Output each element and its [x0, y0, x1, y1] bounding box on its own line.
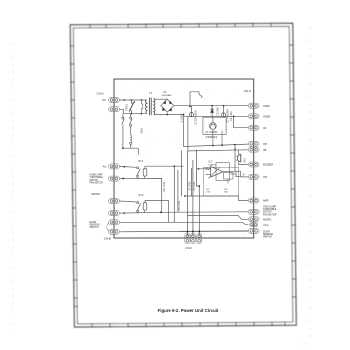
wire fuse branch: [141, 100, 142, 114]
varistor VRS1: [130, 100, 134, 114]
wire aux stub: [227, 179, 229, 184]
junction dots rails C/D: [221, 144, 223, 146]
wire coil top: [145, 201, 169, 203]
svg-text:MOTOR: MOTOR: [90, 180, 99, 182]
svg-text:SENSING: SENSING: [90, 225, 100, 227]
svg-text:C1 2200/16V: C1 2200/16V: [195, 110, 198, 125]
wire rail +V (bridge to CN-C GNDY): [174, 105, 249, 107]
wire GNDS corner to VA row: [234, 116, 249, 127]
wire TH1 to pin: [241, 176, 249, 178]
connector CN-C pin INT: [248, 141, 259, 146]
wire rail gnd (to CN-C GNDS): [184, 114, 249, 116]
connector CN-C pin AMP: [248, 198, 259, 203]
relay coil RY2: [143, 203, 147, 211]
connector CN-C pin 5G (small): [250, 223, 258, 227]
connector CN-C pin INT2: [248, 174, 259, 179]
svg-text:OVEN LAMP: OVEN LAMP: [263, 205, 277, 208]
switch SW1: [122, 117, 124, 119]
connector CN-B pin door2: [109, 229, 120, 234]
IC enclosing box: [204, 167, 239, 196]
svg-text:MICRO: MICRO: [263, 219, 271, 222]
wire secondary top to bridge: [154, 98, 167, 100]
junction dots AC rails: [124, 99, 126, 101]
connector CN-F pin 1: [185, 233, 190, 244]
wire bus 8 (CN-F 3): [198, 186, 200, 236]
scan grain: [119, 81, 251, 236]
frame tick marks: [70, 23, 296, 327]
svg-text:0.1/50V: 0.1/50V: [180, 114, 183, 123]
svg-text:VB: VB: [263, 149, 267, 152]
wire bus 7: [196, 150, 199, 186]
connector CN-C pin DOOR: [248, 228, 259, 233]
svg-text:VA: VA: [263, 127, 266, 130]
wire coil bottom: [144, 210, 146, 212]
relay contact RY1: [137, 167, 139, 169]
svg-text:S1WBA60: S1WBA60: [162, 94, 173, 97]
wire rail INT (sloped): [184, 116, 249, 146]
wire switch join: [123, 148, 138, 154]
wire motors row: [187, 215, 248, 219]
wire bus 3: [180, 150, 182, 196]
connector CN-C pin MICRO: [248, 217, 259, 222]
svg-text:SENSING: SENSING: [263, 234, 273, 236]
capacitor C2 (electrolytic): [223, 106, 225, 117]
switch SW2 with thermal cutout: [130, 114, 132, 117]
svg-text:CN-F: CN-F: [186, 246, 193, 250]
svg-text:56K: 56K: [224, 191, 228, 193]
svg-text:RY DRV: RY DRV: [189, 181, 192, 190]
svg-text:(KID65004): (KID65004): [206, 137, 218, 139]
svg-text:MICRO: MICRO: [92, 193, 100, 196]
svg-text:FAN MOTOR: FAN MOTOR: [90, 182, 104, 185]
transistor Q1: [210, 123, 217, 130]
svg-text:DOOR: DOOR: [90, 222, 97, 224]
relay contact RY2: [137, 202, 139, 204]
svg-text:C3 0.022: C3 0.022: [230, 111, 233, 121]
connector CN-C pin VB: [248, 147, 259, 152]
connector CN-B pin door1: [109, 220, 120, 225]
svg-text:C2 470/16V: C2 470/16V: [227, 109, 230, 123]
wire op-amp output: [223, 145, 235, 172]
connector CN-C pin GNDY: [248, 103, 259, 108]
connector CN-F pin 3: [197, 233, 202, 244]
svg-text:GNDS: GNDS: [263, 116, 271, 119]
junction dot motors row: [122, 178, 124, 180]
junction bridge bottom: [166, 114, 168, 116]
capacitor C1 (electrolytic): [190, 106, 192, 117]
scan artifact dot column left: [12, 43, 14, 331]
svg-text:BZ1: BZ1: [243, 158, 246, 163]
wire secondary bottom rail: [154, 113, 183, 115]
wire Q1 emitter to rail: [212, 135, 214, 145]
transformer T1: [146, 100, 147, 114]
resistor R1 input: [204, 168, 211, 170]
varistor arrow: [129, 101, 135, 112]
op-amp U1: [211, 166, 223, 177]
svg-text:CN-B: CN-B: [104, 237, 111, 241]
svg-text:BUZZER: BUZZER: [263, 164, 273, 167]
svg-text:AC: AC: [103, 165, 107, 169]
scan artifact dot column right: [299, 27, 311, 344]
connector CN-A pin AC2: [109, 107, 120, 112]
svg-text:AC: AC: [102, 98, 106, 102]
svg-text:+5,G: +5,G: [263, 224, 269, 227]
connector CN-C pin BUZZER: [248, 162, 259, 167]
svg-text:SWITCH: SWITCH: [90, 227, 99, 229]
brace to label: [107, 222, 110, 226]
regulator box around Q1: [203, 117, 226, 134]
connector CN-F pin 2: [190, 233, 195, 244]
connector CN-A pin AC3: [109, 164, 120, 169]
relay coil RY1: [143, 169, 147, 177]
svg-text:SW1: SW1: [141, 127, 144, 133]
svg-text:FAN MOTOR: FAN MOTOR: [263, 213, 277, 216]
wire input feed: [196, 168, 203, 170]
svg-text:Figure 9-2. Power Unit Circuit: Figure 9-2. Power Unit Circuit: [158, 308, 219, 313]
wire pin to contact: [120, 165, 137, 168]
wire pin to contact: [120, 201, 137, 202]
svg-text:TURNTABLE: TURNTABLE: [90, 176, 104, 179]
svg-text:GNDY: GNDY: [263, 105, 271, 108]
wire bus 2: [177, 170, 179, 212]
wire input minus: [205, 174, 210, 176]
wire branch drop 1: [122, 114, 124, 117]
wire Q1 emitter down: [212, 129, 214, 135]
wire bus 6 (CN-F 2): [192, 160, 194, 236]
svg-text:RY1: RY1: [138, 159, 144, 163]
svg-text:OVEN LAMP: OVEN LAMP: [90, 173, 104, 176]
wire buzzer top: [238, 150, 240, 155]
connector CN-A pin micro: [109, 199, 120, 204]
wire door1 long: [120, 222, 249, 224]
op-amp feedback diagonal: [208, 167, 219, 178]
wire RY2 drive vertical: [168, 201, 170, 223]
svg-text:Q1 2SD882: Q1 2SD882: [206, 132, 219, 134]
svg-text:RY2 DRV: RY2 DRV: [178, 200, 181, 211]
wire buzzer to pin: [239, 162, 249, 165]
svg-text:SWITCH: SWITCH: [263, 237, 272, 239]
page border frame (double line, slightly tilted): [70, 23, 296, 327]
connector CN-C pin GNDS: [248, 114, 259, 119]
svg-text:CN-A: CN-A: [97, 92, 104, 96]
svg-text:AMP: AMP: [263, 200, 269, 203]
svg-text:IC1: IC1: [209, 161, 213, 164]
wire AC2 jog: [120, 109, 146, 113]
connector CN-A pin AC1: [109, 98, 120, 103]
thermistor TH1 box: [236, 171, 241, 177]
svg-text:VRS1: VRS1: [124, 103, 128, 111]
wire jumper hook: [190, 92, 201, 107]
svg-text:RY2: RY2: [139, 193, 145, 197]
connector CN-C pin motors: [248, 209, 259, 214]
wire AMP row: [185, 196, 248, 201]
buzzer BZ1: [237, 154, 240, 162]
svg-text:DOOR: DOOR: [263, 231, 270, 233]
IC inner box: [216, 163, 230, 181]
wire rail VB (sloped): [188, 116, 249, 151]
wire Q1 box right lead: [221, 131, 223, 147]
svg-text:KIA393: KIA393: [209, 163, 217, 166]
wire coil top to bus: [145, 166, 184, 168]
connector CN-C pin VA: [248, 125, 259, 130]
diode bridge D1: [161, 99, 174, 112]
wire CN-F top: [180, 230, 248, 232]
junction dots on rails: [189, 106, 191, 108]
svg-text:ZD 24V: ZD 24V: [216, 107, 219, 116]
wire bus 1: [173, 166, 175, 222]
main circuit outline box: [114, 79, 254, 238]
wire door2 long: [120, 230, 249, 233]
wire TH1 left stub: [231, 173, 237, 175]
wire Q1 collector to gnd rail: [212, 116, 214, 122]
connector CN-A pin motors: [109, 176, 120, 181]
svg-text:1.5K: 1.5K: [206, 191, 211, 193]
svg-text:RY1 DRV: RY1 DRV: [163, 181, 166, 192]
svg-text:CN-C: CN-C: [244, 89, 251, 93]
wire bus 4 (CN-F 1): [186, 151, 188, 236]
svg-text:BZ DRV: BZ DRV: [193, 181, 196, 190]
zener diode ZD1: [211, 106, 213, 117]
svg-text:INT: INT: [263, 143, 268, 146]
schematic drawing group: [109, 79, 254, 238]
wire AC1 to transformer: [120, 99, 146, 101]
svg-text:INT: INT: [263, 176, 268, 179]
svg-text:MOTOR: MOTOR: [263, 212, 272, 214]
wire bus 5: [190, 168, 192, 196]
svg-text:T1: T1: [149, 91, 153, 95]
svg-text:TURNTABLE: TURNTABLE: [263, 208, 277, 211]
wire micro2 long: [120, 212, 249, 213]
connector CN-A pin micro2: [109, 211, 120, 216]
IC aux box: [224, 173, 234, 180]
wire coil bottom / motor out: [120, 178, 162, 212]
